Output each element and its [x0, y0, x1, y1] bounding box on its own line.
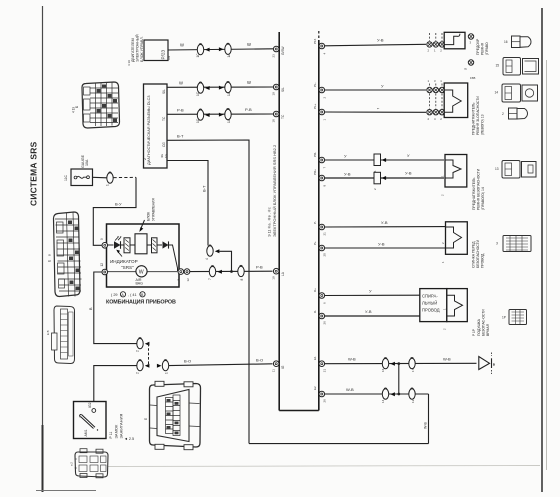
SRS ECU right edge — [318, 40, 320, 411]
svg-text:19: 19 — [272, 92, 276, 96]
second resistor in meter — [147, 238, 157, 253]
svg-text:16: 16 — [381, 368, 385, 372]
svg-text:◄ 2.5: ◄ 2.5 — [124, 437, 134, 441]
svg-text:ПРОВОД: ПРОВОД — [481, 253, 485, 268]
svg-text:Е: Е — [48, 260, 52, 262]
svg-text:21: 21 — [323, 232, 327, 236]
connector pair on P-B wire — [196, 108, 231, 123]
svg-text:Е2: Е2 — [313, 386, 317, 390]
svg-text:1С: 1С — [196, 53, 200, 58]
left border lower thick part — [42, 425, 44, 492]
ECU pin P+ terminal — [313, 241, 327, 257]
svg-text:РR-: РR- — [313, 152, 317, 157]
SRS indicator LED — [107, 236, 122, 249]
svg-text:14: 14 — [167, 56, 171, 60]
engine ECU label — [127, 34, 144, 66]
meter left terminals — [100, 238, 108, 275]
wire Y-B to right pretensioner squib — [325, 38, 426, 46]
connector illustration left E2 — [46, 306, 75, 364]
connector pair on DLC W wire — [196, 81, 231, 96]
ignition switch label — [109, 414, 134, 441]
meter lower wire — [107, 271, 178, 273]
svg-text:2: 2 — [502, 112, 504, 116]
ignition switch box — [74, 402, 107, 439]
svg-text:Р 1Р: Р 1Р — [472, 329, 476, 336]
connector illustration left E1 — [48, 212, 82, 297]
indicator label — [110, 250, 138, 270]
svg-text:21: 21 — [323, 369, 327, 373]
driver airbag squib box — [442, 289, 467, 330]
svg-text:W: W — [179, 81, 183, 86]
svg-text:РR+: РR+ — [313, 169, 317, 175]
svg-text:КОМБИНАЦИЯ ПРИБОРОВ: КОМБИНАЦИЯ ПРИБОРОВ — [106, 300, 176, 306]
svg-text:9: 9 — [100, 238, 104, 240]
right icon R7 — [502, 310, 527, 325]
svg-text:20: 20 — [323, 253, 327, 257]
right icon R3 — [495, 84, 538, 102]
svg-text:SIL: SIL — [162, 89, 166, 94]
svg-text:ПРЕДНАТЯЖИТЕЛЬ: ПРЕДНАТЯЖИТЕЛЬ — [472, 102, 476, 135]
svg-text:, ( 41: , ( 41 — [128, 293, 137, 297]
right border shadow — [546, 60, 548, 470]
bottom ground rail — [249, 443, 429, 445]
svg-text:АМ1: АМ1 — [84, 429, 88, 436]
svg-text:( 29: ( 29 — [111, 293, 118, 297]
left border line — [42, 6, 44, 492]
svg-text:БЛОК: БЛОК — [147, 212, 151, 221]
label left pretensioner — [472, 96, 485, 135]
svg-text:13: 13 — [411, 399, 415, 403]
svg-text:2: 2 — [136, 350, 140, 352]
AIR BAG gauge symbol — [136, 266, 148, 286]
svg-text:в 2: в 2 — [70, 462, 74, 466]
svg-text:БЕЗОПАС-ОСТИ: БЕЗОПАС-ОСТИ — [482, 309, 486, 336]
wire Y-B2 to left airbag — [325, 242, 445, 249]
svg-text:РЕМНЯ БЕЗОПАСНОСТИ: РЕМНЯ БЕЗОПАСНОСТИ — [477, 168, 481, 210]
svg-text:D+: D+ — [313, 288, 317, 292]
junction between ground wires — [397, 362, 400, 395]
svg-text:W: W — [247, 42, 251, 47]
svg-text:W: W — [139, 270, 144, 276]
svg-text:РЕМНЯ ЗLОПАСНОСТИ: РЕМНЯ ЗLОПАСНОСТИ — [476, 96, 480, 135]
meter caption — [106, 292, 176, 306]
wire1 meter pin12 down to connectors — [89, 272, 149, 365]
svg-text:РL-: РL- — [313, 82, 317, 87]
ECU pin P16 terminal — [313, 38, 327, 54]
ECU pin D- terminal — [313, 310, 327, 325]
svg-text:16: 16 — [504, 40, 508, 44]
DLC pin labels — [160, 89, 168, 158]
circled terminal above left pretensioner — [464, 60, 475, 80]
svg-text:В-Т: В-Т — [202, 185, 207, 192]
svg-text:1: 1 — [165, 372, 169, 374]
wire meter to ECU pin — [190, 265, 273, 281]
svg-text:В-О: В-О — [256, 358, 263, 363]
wire Y-B to left airbag — [325, 220, 445, 227]
svg-text:1G: 1G — [164, 153, 168, 158]
svg-text:G/SW: G/SW — [281, 47, 285, 56]
svg-text:26: 26 — [323, 399, 327, 403]
svg-text:2: 2 — [136, 372, 140, 374]
svg-text:УПРАВЛЕНИЯ: УПРАВЛЕНИЯ — [152, 198, 156, 221]
svg-text:IG: IG — [281, 365, 285, 369]
connector pair on wire W — [196, 43, 231, 57]
svg-text:1С: 1С — [196, 91, 200, 96]
ground riser W-B — [424, 394, 429, 444]
ECU pin PR+ terminal — [313, 169, 327, 187]
svg-text:СИСТЕМА SRS: СИСТЕМА SRS — [29, 141, 39, 206]
wire from DLC bottom pin down to junction — [167, 161, 208, 246]
diagnostic connector DLC box — [143, 84, 167, 168]
ECU pin PR- terminal — [313, 152, 327, 169]
svg-text:4 19: 4 19 — [72, 107, 76, 113]
ECU pin 23 G/SW terminal — [272, 46, 286, 57]
connector illustration top-left 22pin — [72, 82, 120, 128]
svg-text:W: W — [247, 80, 251, 85]
fuse GAUGE box — [64, 154, 93, 185]
svg-text:Е: Е — [144, 418, 148, 420]
svg-text:ПРЕДНАТЯЖИТЕЛЬ: ПРЕДНАТЯЖИТЕЛЬ — [472, 177, 476, 210]
svg-text:4: 4 — [205, 258, 209, 260]
spiral cable box — [420, 289, 447, 322]
svg-text:ДИАГНОСТИЧЕСКАЯ РАЗЪЕМЫ DLC3: ДИАГНОСТИЧЕСКАЯ РАЗЪЕМЫ DLC3 — [147, 96, 151, 165]
circled terminal right of box1 — [468, 34, 473, 45]
svg-text:ЛЬНЫЙ: ЛЬНЫЙ — [422, 301, 437, 306]
wire B-T from DLC CG down to ground rail — [167, 134, 249, 444]
svg-text:СG: СG — [162, 142, 166, 147]
svg-text:ТС: ТС — [281, 114, 285, 119]
svg-text:СПИНКА ПЕРЕД: СПИНКА ПЕРЕД — [472, 241, 476, 268]
svg-text:ДВИГАТЕЛЕМ: ДВИГАТЕЛЕМ — [131, 38, 135, 62]
svg-text:(ПРАВОГО) 14: (ПРАВОГО) 14 — [481, 187, 485, 210]
svg-text:РЕМНЯ: РЕМНЯ — [481, 42, 485, 55]
svg-text:Р16: Р16 — [313, 38, 317, 44]
svg-text:У-В: У-В — [365, 309, 372, 314]
right icon R4 — [502, 108, 528, 119]
ground wire E2 — [325, 387, 429, 403]
meter right terminals — [177, 269, 190, 282]
svg-text:З: З — [496, 242, 498, 246]
svg-text:1С: 1С — [196, 118, 200, 123]
svg-text:В: В — [48, 254, 52, 256]
right icon R2 — [496, 58, 539, 76]
engine ECU box P/23 — [144, 40, 171, 61]
wire2 ignition IG2 to ECU — [94, 358, 273, 410]
ECU pin D+ terminal — [313, 288, 327, 304]
squib connector circles row1 — [427, 33, 445, 53]
pointer label into meter — [139, 198, 155, 232]
svg-text:SIL: SIL — [281, 87, 285, 92]
svg-text:В-О: В-О — [184, 359, 191, 364]
ECU pin IG terminal — [272, 361, 286, 372]
svg-text:Р-В: Р-В — [256, 265, 263, 270]
wire W from engine ECU to SRS ECU pin — [168, 42, 273, 50]
svg-text:12: 12 — [186, 278, 190, 282]
left pretensioner box — [444, 83, 468, 118]
svg-text:19: 19 — [272, 276, 276, 280]
svg-text:W-В: W-В — [424, 421, 428, 429]
svg-text:У-В: У-В — [378, 242, 385, 247]
ECU pin PL- terminal — [313, 82, 327, 98]
svg-text:ТС: ТС — [162, 116, 166, 121]
svg-text:ПРЕДОХР: ПРЕДОХР — [476, 38, 480, 55]
svg-text:14: 14 — [495, 91, 499, 95]
svg-text:8: 8 — [240, 279, 244, 281]
label driver airbag — [472, 309, 490, 336]
right icon R1 — [504, 36, 531, 48]
SRS ECU right edge dashed top — [318, 31, 320, 40]
svg-text:18: 18 — [272, 119, 276, 123]
wire W from DLC SIL — [167, 80, 273, 87]
svg-text:11С: 11С — [64, 174, 68, 181]
svg-text:ВРМАЯ: ВРМАЯ — [486, 323, 490, 336]
SRS ECU left edge — [278, 32, 280, 411]
svg-text:26: 26 — [323, 321, 327, 325]
wire Y to spiral cable — [325, 289, 420, 296]
svg-text:(ЛЕВОГО) 13: (ЛЕВОГО) 13 — [481, 114, 485, 135]
svg-text:Е1: Е1 — [313, 356, 317, 360]
wire P-B from DLC TC — [167, 107, 273, 114]
svg-text:В-Т: В-Т — [177, 134, 184, 139]
svg-text:17: 17 — [411, 368, 415, 372]
ECU pin LA terminal — [272, 268, 286, 279]
wire Y to left pretensioner — [325, 84, 426, 91]
svg-text:Е В: Е В — [46, 330, 50, 335]
connector illustration bottom small — [70, 449, 109, 478]
svg-text:13: 13 — [495, 167, 499, 171]
svg-text:БЕЗОПАСНОСТИ: БЕЗОПАСНОСТИ — [476, 239, 480, 268]
svg-text:В-У: В-У — [115, 202, 122, 207]
svg-text:Р-В: Р-В — [245, 107, 252, 112]
wire Y-B to right belt squib — [325, 171, 444, 191]
right belt pretensioner box — [441, 155, 467, 197]
ECU pin PL+ terminal — [313, 103, 327, 120]
svg-text:D-: D- — [313, 310, 317, 313]
svg-text:10А: 10А — [85, 159, 89, 166]
svg-text:1Р: 1Р — [502, 316, 506, 320]
right pretensioner box — [444, 32, 465, 49]
svg-text:2: 2 — [143, 158, 147, 160]
wire Y-B lower to left pretensioner — [325, 106, 426, 113]
svg-text:(ПРАВО: (ПРАВО — [485, 42, 489, 55]
svg-text:1: 1 — [106, 184, 110, 186]
svg-text:W-В: W-В — [348, 357, 356, 362]
svg-text:Р 11: Р 11 — [109, 432, 113, 439]
right icon R6 — [496, 236, 531, 252]
ECU pin 19 SIL terminal — [272, 84, 286, 95]
right border line — [541, 8, 543, 492]
svg-text:ВАG: ВАG — [136, 282, 144, 286]
diode in meter — [157, 241, 178, 271]
SRS ECU label — [268, 144, 278, 237]
label right belt pretensioner — [472, 168, 485, 210]
svg-text:Р-: Р- — [313, 221, 317, 224]
squib connector circles rows2,3 — [427, 79, 445, 121]
svg-text:15: 15 — [496, 64, 500, 68]
svg-text:Р/2З: Р/2З — [161, 50, 166, 60]
wire Y to right belt squib — [325, 153, 444, 172]
ECU pin E1 terminal — [313, 356, 327, 372]
svg-text:14: 14 — [381, 399, 385, 403]
svg-text:W-В: W-В — [346, 387, 354, 392]
svg-text:ЗАЖИГАНИЯ: ЗАЖИГАНИЯ — [119, 414, 124, 439]
SRS ECU bottom edge — [279, 410, 319, 412]
ground wire E1 — [325, 356, 477, 372]
bottom border remnant — [36, 490, 96, 492]
svg-text:11: 11 — [272, 369, 276, 372]
svg-text:4 19: 4 19 — [127, 60, 131, 66]
ECU pin 18 TC terminal — [272, 111, 286, 122]
svg-text:Р-В: Р-В — [177, 108, 184, 113]
svg-text:БЛОК УПРАВЛ.: БЛОК УПРАВЛ. — [140, 36, 144, 62]
svg-text:ИНДИКАТОР: ИНДИКАТОР — [110, 259, 138, 264]
svg-text:12: 12 — [100, 263, 104, 267]
svg-text:У-В: У-В — [381, 220, 388, 225]
svg-text:"SRS": "SRS" — [121, 265, 134, 270]
svg-text:ПОДУШКА: ПОДУШКА — [477, 318, 481, 336]
svg-text:У-В: У-В — [377, 38, 384, 43]
ECU pin E2 terminal — [313, 386, 327, 403]
svg-text:Э 11 ④а , ⑩в , ④с: Э 11 ④а , ⑩в , ④с — [268, 207, 272, 237]
label right pretensioner — [476, 38, 489, 55]
svg-text:ПРОВОД: ПРОВОД — [422, 308, 440, 313]
combination meter box — [107, 224, 180, 287]
ECU pin P- terminal — [313, 221, 327, 236]
fuse wire to combination meter — [93, 172, 137, 245]
wire Y-B to spiral cable — [325, 309, 420, 316]
faint scan line — [95, 466, 540, 467]
svg-text:У-В: У-В — [344, 172, 351, 177]
resistor in meter — [121, 238, 131, 253]
svg-text:У-В: У-В — [405, 171, 412, 176]
connector on branch wire — [205, 245, 233, 273]
svg-text:15В: 15В — [470, 76, 475, 80]
driver block in meter — [130, 234, 147, 254]
svg-text:IG2: IG2 — [88, 402, 92, 408]
left airbag box — [441, 222, 467, 263]
svg-text:23: 23 — [272, 54, 276, 58]
svg-text:W-В: W-В — [443, 356, 451, 361]
svg-text:W: W — [180, 43, 184, 48]
right icon R5 — [495, 161, 536, 179]
ground symbol — [479, 353, 496, 375]
svg-text:Р+: Р+ — [313, 241, 317, 245]
svg-text:СПИРА-: СПИРА- — [422, 294, 438, 299]
label left airbag — [472, 239, 485, 268]
svg-text:РL+: РL+ — [313, 103, 317, 109]
svg-text:7: 7 — [208, 278, 212, 280]
connector illustration DLC3 — [144, 381, 201, 449]
svg-text:ЭЛЕКТРОННЫЙ БЛОК УПРАВЛЕНИЯ SR: ЭЛЕКТРОННЫЙ БЛОК УПРАВЛЕНИЯ SRS НВ2.2 — [272, 144, 277, 237]
